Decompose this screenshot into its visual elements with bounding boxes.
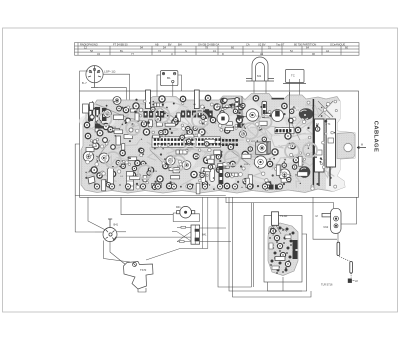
pcb light patches xyxy=(79,97,312,188)
wire speaker lead 2 xyxy=(98,88,127,117)
capacitor C30 xyxy=(201,168,206,183)
sub-board pad xyxy=(271,244,274,247)
svg-text:N: N xyxy=(185,49,187,53)
table text xyxy=(80,43,348,56)
pcb white region lower center xyxy=(249,162,275,182)
sub-board pad xyxy=(289,256,292,259)
resistor R17 xyxy=(229,173,238,177)
wire battery left xyxy=(157,75,160,101)
wire battery bottom lead xyxy=(172,83,174,99)
component pad xyxy=(221,98,226,103)
svg-text:RADIOPHONO: RADIOPHONO xyxy=(80,43,98,47)
svg-text:M12: M12 xyxy=(324,226,329,229)
wire T2 right lead xyxy=(299,79,301,100)
capacitor block C12 xyxy=(127,172,134,191)
svg-text:M1: M1 xyxy=(257,74,261,78)
component pad xyxy=(155,116,160,121)
wire switch down xyxy=(104,241,131,263)
resistor R14 xyxy=(176,150,187,154)
sub-board transistor xyxy=(274,235,279,240)
bracket M1 arch xyxy=(246,57,274,81)
wire T2 left lead xyxy=(289,79,291,113)
component pad xyxy=(272,149,278,155)
sub-board transistor xyxy=(270,228,275,233)
svg-text:TC: TC xyxy=(291,74,295,78)
sub-board transistor xyxy=(285,261,290,266)
wire speaker lead right xyxy=(103,74,130,117)
svg-text:D: D xyxy=(222,52,224,56)
component pad xyxy=(133,103,139,109)
coil L3 xyxy=(104,110,112,118)
extra pads and rings xyxy=(86,100,338,191)
component pad xyxy=(224,183,229,188)
svg-text:U: U xyxy=(171,52,173,56)
short pad strip upper right xyxy=(275,128,294,134)
wire pot mounting loop xyxy=(173,213,199,222)
component pad xyxy=(123,107,128,112)
component pad xyxy=(265,182,271,188)
component pad xyxy=(205,95,210,100)
polarity mark xyxy=(303,119,307,122)
wire switch down 2 xyxy=(110,242,126,266)
component pad xyxy=(163,129,168,134)
loudspeaker LS1 xyxy=(86,66,103,88)
transistor TS4 xyxy=(182,161,191,170)
battery B1 xyxy=(160,71,178,86)
svg-text:A1: A1 xyxy=(260,52,264,56)
copper traces xyxy=(86,102,334,189)
coupling coil L1 xyxy=(124,117,132,125)
bracket hook xyxy=(138,288,146,292)
svg-text:OCéANIQUE: OCéANIQUE xyxy=(330,43,346,47)
svg-text:CA: CA xyxy=(246,43,250,47)
extra dark pads xyxy=(85,101,335,190)
wire M1 right lead xyxy=(265,81,267,99)
coil L4 xyxy=(240,131,247,138)
pcb white region right xyxy=(326,101,355,192)
component pad xyxy=(202,181,207,186)
component pad xyxy=(84,122,89,127)
sub-board pad xyxy=(286,228,289,231)
component pad xyxy=(238,104,243,109)
thick bus trace xyxy=(312,99,314,190)
svg-text:B−7: B−7 xyxy=(82,81,87,85)
potentiometer P1 xyxy=(177,206,195,218)
mixer stage cluster xyxy=(205,96,246,131)
component pad xyxy=(119,161,125,167)
cross strap xyxy=(318,101,333,117)
sub-board pad xyxy=(284,237,287,240)
wire bundle verticals xyxy=(146,197,208,260)
svg-text:FT 54 BB 50: FT 54 BB 50 xyxy=(113,43,128,47)
coil block left xyxy=(88,107,107,121)
sub-board small rects xyxy=(269,243,273,249)
resistor R21 xyxy=(152,184,162,188)
component pad xyxy=(243,179,248,184)
svg-text:LSP−1Ω: LSP−1Ω xyxy=(104,70,116,74)
component pad xyxy=(253,96,258,101)
extra component outlines xyxy=(90,103,308,194)
transistor TS3 xyxy=(166,156,175,165)
antenna socket plug lead xyxy=(322,213,331,217)
transformer T2 box xyxy=(283,70,306,84)
component pad xyxy=(85,133,90,138)
IF can lug 3 xyxy=(262,101,267,117)
wire switch right short xyxy=(117,231,126,233)
wire pcb down 2 xyxy=(121,197,173,214)
svg-text:BL: BL xyxy=(120,49,124,53)
chassis pin arrow xyxy=(357,146,366,148)
component pad xyxy=(148,167,153,172)
component pad xyxy=(91,167,97,173)
sub-board pad xyxy=(274,252,277,255)
parts table xyxy=(75,43,360,56)
component pad xyxy=(293,157,298,162)
wire switch left xyxy=(95,231,103,233)
svg-text:M: M xyxy=(361,144,363,147)
connector left wires xyxy=(172,227,191,241)
transistor TS7 xyxy=(279,169,290,180)
solder pads xyxy=(85,103,331,187)
detector cluster xyxy=(272,92,294,131)
transistor TS6 xyxy=(254,156,266,168)
transistor TS2 xyxy=(99,153,109,163)
svg-text:BV: BV xyxy=(168,43,172,47)
component pad xyxy=(163,163,168,168)
component pad xyxy=(210,117,215,122)
lower-left sub box xyxy=(75,144,226,196)
sub-board pad xyxy=(293,249,296,252)
main wiring box xyxy=(80,91,359,197)
antenna socket xyxy=(331,208,341,233)
transistor TS1 xyxy=(83,151,93,161)
sub-board pad xyxy=(285,269,288,272)
component pad xyxy=(216,167,221,172)
printed circuit board outline xyxy=(81,94,355,194)
component pad xyxy=(214,104,220,110)
svg-text:AB: AB xyxy=(155,43,159,47)
capacitor C31 xyxy=(210,169,215,182)
electrolytic C100 xyxy=(299,108,313,120)
component pad xyxy=(230,161,235,166)
component pad xyxy=(108,127,113,132)
output transformer T3 xyxy=(315,119,325,172)
connector right wires xyxy=(200,228,231,242)
component pad xyxy=(295,127,300,132)
component pad xyxy=(242,151,248,157)
svg-text:TLR 5716: TLR 5716 xyxy=(321,283,333,287)
amplifier sub-board box xyxy=(264,216,302,283)
wire switch right long xyxy=(117,236,196,238)
dark trace bundle xyxy=(96,104,330,170)
bus trace lower leads xyxy=(319,167,330,186)
top band pads xyxy=(93,99,327,127)
sub-board pad xyxy=(271,260,274,263)
component pad xyxy=(103,123,109,129)
sub-board pad xyxy=(290,240,293,243)
diode D1 xyxy=(88,176,95,184)
component pad xyxy=(159,96,165,102)
component pad xyxy=(193,154,198,159)
svg-text:R41: R41 xyxy=(176,206,181,209)
component pad xyxy=(228,144,233,149)
sub-board pad xyxy=(287,247,290,250)
electrolytic bar xyxy=(219,166,224,184)
sub-board resistor xyxy=(275,257,285,261)
svg-text:7au BT: 7au BT xyxy=(276,43,285,47)
pcb side tab xyxy=(337,133,355,159)
component pad xyxy=(285,133,291,139)
connector block xyxy=(191,225,200,244)
component pad xyxy=(93,143,99,149)
component pad xyxy=(225,128,230,133)
svg-text:U2 BV: U2 BV xyxy=(258,43,266,47)
capacitor C11 xyxy=(108,168,114,188)
svg-text:BH: BH xyxy=(178,43,182,47)
sub-board pad xyxy=(279,262,282,265)
component pad xyxy=(180,96,185,101)
wire route C xyxy=(233,197,312,297)
driver coil L6 xyxy=(257,143,266,152)
component pad xyxy=(130,172,135,177)
component pad xyxy=(143,129,149,135)
light trace rings xyxy=(99,108,318,180)
pcb reference labels xyxy=(89,108,300,183)
svg-text:B1: B1 xyxy=(167,76,171,80)
svg-text:TS70: TS70 xyxy=(140,268,147,272)
component pad xyxy=(135,160,140,165)
rotary switch S1 xyxy=(103,219,117,242)
chassis bracket xyxy=(124,262,154,290)
wire speaker bracket xyxy=(80,71,88,91)
component pad xyxy=(141,121,146,126)
component pad xyxy=(199,129,205,135)
component pad xyxy=(191,171,197,177)
wire antenna frame xyxy=(313,197,337,239)
antenna tip plug xyxy=(350,274,352,279)
extra small rings xyxy=(97,103,320,189)
svg-text:M: M xyxy=(316,214,318,218)
component pad xyxy=(157,176,163,182)
sub-board pad xyxy=(277,269,280,272)
wire pcb down 1 xyxy=(88,197,105,229)
component pad xyxy=(110,171,115,176)
dark component pair xyxy=(269,185,274,190)
sub-board pad xyxy=(279,227,282,230)
electrolytic C101 xyxy=(299,166,311,178)
pad strip extension xyxy=(222,139,224,142)
wire route D pair xyxy=(252,203,254,287)
pcb white region center xyxy=(244,106,268,128)
sub-board extra pads xyxy=(269,228,292,274)
svg-text:TS-AN: TS-AN xyxy=(280,215,287,218)
antenna dashed link xyxy=(339,257,350,262)
svg-text:CABLAGE: CABLAGE xyxy=(373,121,379,152)
sub-board transistor xyxy=(280,252,285,257)
wire route B feed xyxy=(226,197,334,208)
IF can lug 2 xyxy=(194,90,199,109)
sub-board bottom lead xyxy=(282,277,284,291)
svg-text:B41: B41 xyxy=(114,223,119,227)
component pad xyxy=(247,183,253,189)
component pad xyxy=(172,119,178,125)
wire battery right xyxy=(178,75,182,91)
wire route B down xyxy=(229,197,302,291)
svg-text:A: A xyxy=(252,49,254,53)
sub pcb blob xyxy=(268,223,298,276)
component pad xyxy=(267,161,272,166)
sub-board pad xyxy=(292,232,295,235)
connector pad strip xyxy=(152,137,221,147)
component pad xyxy=(187,129,192,134)
component pad xyxy=(236,117,242,123)
component pad xyxy=(120,150,125,155)
antenna segment 2 xyxy=(350,261,353,273)
sub-board dark caps xyxy=(293,240,298,249)
sub pcb lug xyxy=(272,212,279,226)
output transformer T4 xyxy=(326,119,335,167)
sub-board transistor xyxy=(277,243,282,248)
IF transformer row 1 xyxy=(144,111,165,118)
component pad xyxy=(204,157,210,163)
bracket screw xyxy=(133,263,137,267)
svg-text:GA GB CH BB GA: GA GB CH BB GA xyxy=(198,43,219,47)
tuning gang frame xyxy=(256,142,269,154)
wire route A xyxy=(218,197,252,287)
transistor TS5 xyxy=(246,109,258,121)
resistor R3 xyxy=(154,103,163,107)
pcb mounting hole xyxy=(344,143,352,151)
component pad xyxy=(216,152,221,157)
sub-board second box xyxy=(268,234,307,291)
component pad xyxy=(290,143,295,148)
wire antenna down xyxy=(337,233,339,242)
wire socket right xyxy=(341,197,357,224)
IF transformer row 2 xyxy=(181,111,213,118)
antenna segment 1 xyxy=(337,242,340,255)
bottom component row xyxy=(94,184,282,189)
component pad xyxy=(97,173,102,178)
left zone cluster xyxy=(83,104,143,152)
oscillator coil L2 xyxy=(113,97,121,105)
component pad xyxy=(282,103,287,108)
component pad xyxy=(167,183,172,188)
IF can lug 1 xyxy=(146,90,151,109)
sub lug fan wires xyxy=(269,225,288,236)
resistor R18 xyxy=(267,142,271,154)
wire pcb to switch left xyxy=(75,196,95,233)
wire M1 left lead xyxy=(253,81,255,100)
